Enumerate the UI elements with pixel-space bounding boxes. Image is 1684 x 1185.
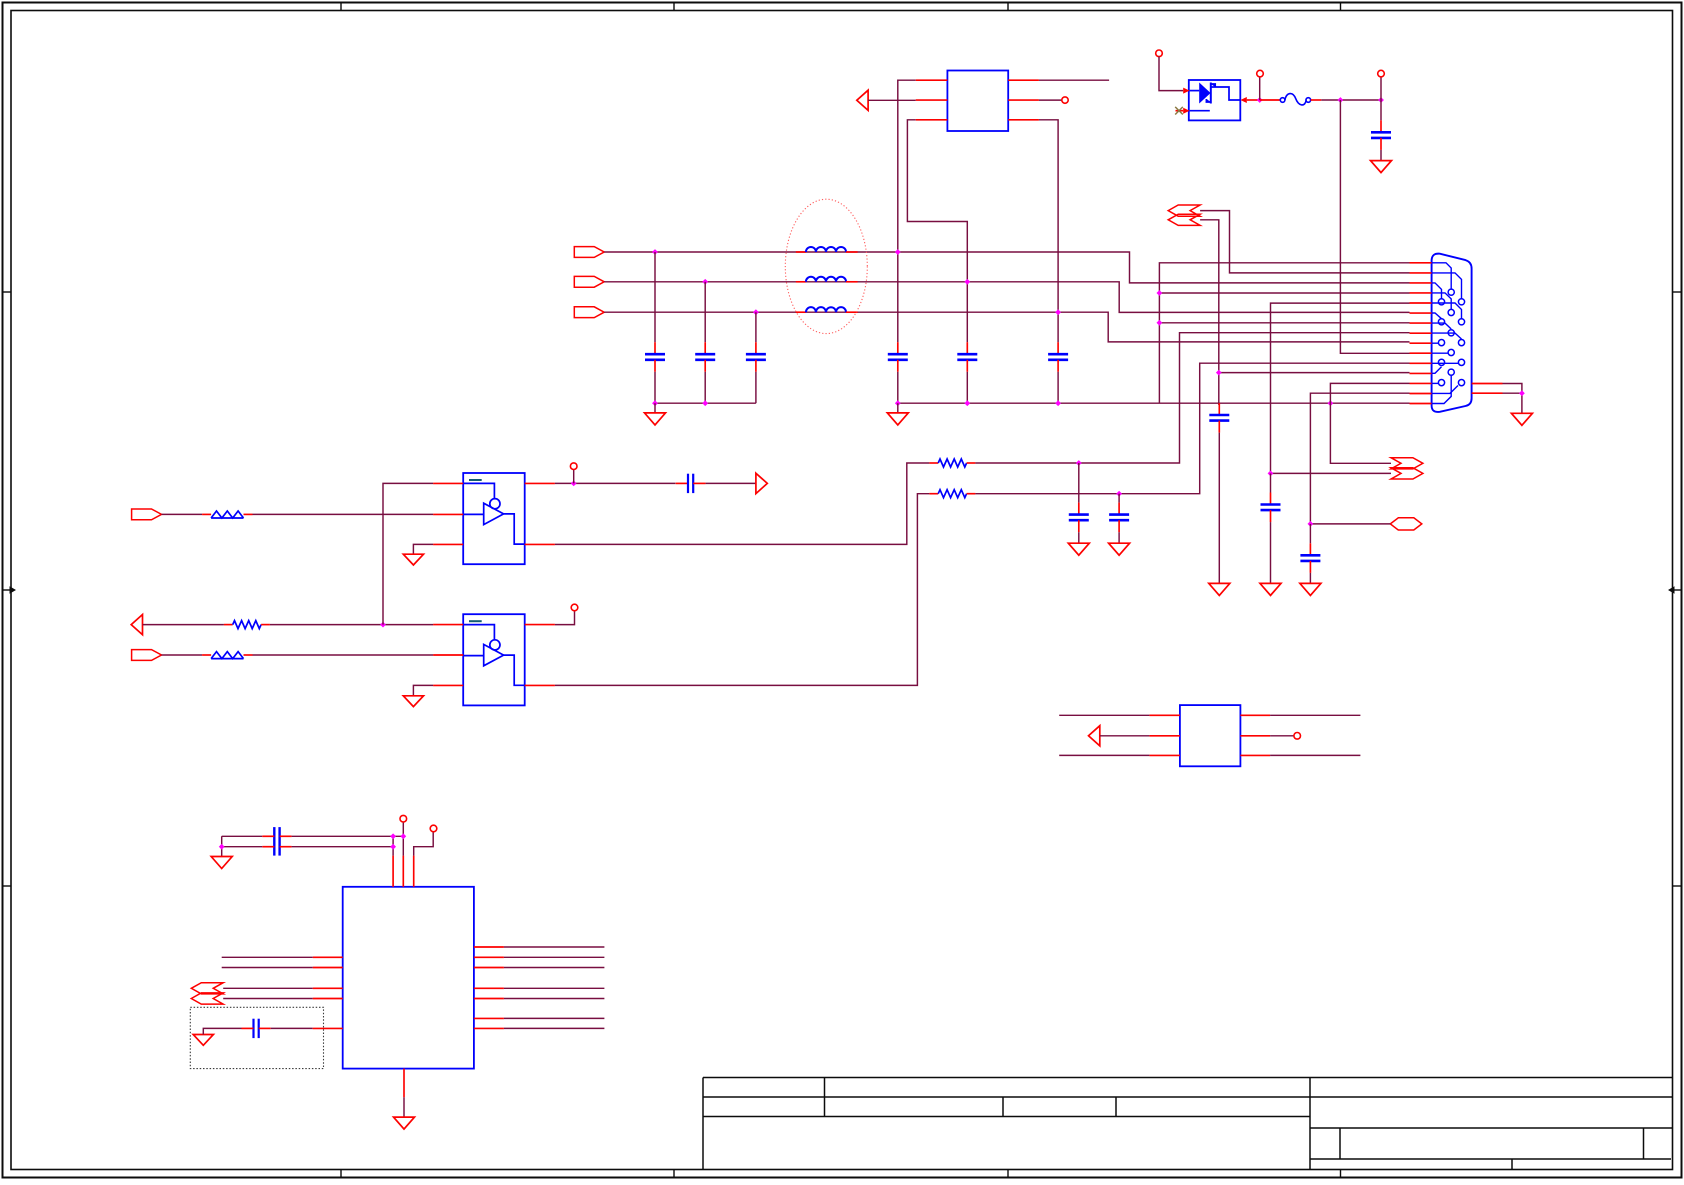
- ground below C12: [1109, 543, 1130, 555]
- wire R2 to DB pin11: [975, 363, 1409, 494]
- wire pin riser a: [392, 836, 394, 855]
- wire enable riser to U1: [383, 483, 433, 624]
- wire U3 top-right: [1270, 714, 1360, 716]
- wire C11 to ground: [1078, 532, 1080, 543]
- ground below C9: [1209, 583, 1230, 595]
- wire C10 to port: [706, 482, 756, 484]
- junction on D1 output: [1257, 97, 1263, 103]
- wire U3 mid-right to circle: [1270, 735, 1294, 737]
- pin circle U3: [1294, 733, 1301, 740]
- capacitor C2: [695, 342, 715, 372]
- border centre arrow left: [3, 586, 16, 593]
- junction bus-C4: [895, 400, 901, 406]
- junction gnd riser pin4: [1157, 290, 1163, 296]
- wire rail2 left: [222, 846, 263, 848]
- junction row3-C3: [753, 309, 759, 315]
- port arrow P1: [857, 90, 868, 110]
- wire C9 to ground: [1218, 433, 1220, 584]
- ic U4 body: [343, 887, 474, 1069]
- ground mid cap group: [887, 413, 908, 425]
- capacitor C1: [645, 342, 665, 372]
- pin circle on D1 output: [1257, 70, 1264, 77]
- wire U4 left row1: [222, 956, 313, 958]
- wire rail2 to pin: [292, 846, 394, 848]
- junction U1 output circle: [571, 481, 577, 487]
- junction bus-C2: [702, 400, 708, 406]
- DB15 right side pins: [1472, 384, 1503, 394]
- diode block D1 body: [1189, 80, 1241, 120]
- ground below C14: [1300, 583, 1321, 595]
- capacitor C15 body: [262, 827, 291, 856]
- port arrow P3 right: [756, 473, 767, 493]
- wire U1 top output: [555, 482, 676, 484]
- no-connect circle on T1 pin5: [1062, 97, 1068, 103]
- junction gnd riser pin7: [1157, 320, 1163, 326]
- wire C4 to bus: [897, 372, 899, 403]
- pin circle U4 c: [430, 825, 437, 832]
- capacitor C8: [1371, 120, 1391, 150]
- wire to +5V circle: [1380, 77, 1382, 100]
- resistor R6: [202, 652, 252, 659]
- wire U1 output to R1: [555, 463, 930, 544]
- wire ground bus left group: [655, 402, 756, 404]
- junction DB shield: [1519, 390, 1525, 396]
- capacitor C14: [1300, 543, 1320, 573]
- wire +5V node to C8: [1380, 100, 1382, 120]
- connector J4: [132, 509, 162, 520]
- wire VCC rail to pins: [292, 835, 404, 837]
- pin circle U2: [571, 604, 578, 611]
- wire +5V to DB pin10: [1340, 100, 1409, 353]
- filter block U3 body: [1180, 705, 1241, 766]
- wire circle riser U1: [573, 469, 575, 483]
- wire chevrons to U4 b: [223, 998, 313, 1000]
- junction bus-C5: [964, 400, 970, 406]
- capacitor C6: [1048, 342, 1068, 372]
- junction bus-pin13 net: [1328, 400, 1334, 406]
- ground left cap group: [645, 413, 666, 425]
- wire pin14 node to hex: [1310, 523, 1390, 525]
- wire C2 lead: [704, 282, 706, 342]
- ground rails: [211, 857, 232, 869]
- ground U4: [394, 1117, 415, 1129]
- junction a2: [390, 844, 396, 850]
- wire T1 pin6 stub right: [1039, 79, 1109, 81]
- junction row2-T1: [964, 279, 970, 285]
- wire VIN to D1: [1159, 57, 1183, 91]
- wire DB pin4 tap: [1159, 292, 1409, 294]
- pin circle U4 b: [400, 815, 407, 822]
- wire chevrons to U4 a: [223, 987, 313, 989]
- capacitor C5: [957, 342, 977, 372]
- capacitor C10: [676, 474, 706, 493]
- wire D1 output to circle: [1259, 77, 1261, 100]
- wire C16 to U4: [271, 1027, 313, 1029]
- wire DB pin5 net: [1271, 303, 1410, 473]
- wire C6 to bus: [1057, 372, 1059, 403]
- ground below C8: [1371, 161, 1392, 173]
- wire C5 to bus: [966, 372, 968, 403]
- wire pin riser c: [414, 832, 434, 856]
- title block table: [703, 1078, 1673, 1170]
- transformer T1 pins: [916, 80, 1039, 120]
- filter block U3 pins: [1149, 715, 1270, 755]
- inductor L2: [796, 277, 858, 282]
- wire T1 pin3 to net row2: [907, 120, 967, 342]
- wire P2 to R5: [143, 624, 224, 626]
- capacitor C11: [1069, 503, 1089, 533]
- wire rail left stem: [221, 836, 223, 856]
- power pin circle VIN: [1156, 50, 1163, 57]
- connector J3 row3: [574, 307, 604, 318]
- junction at x1381: [1378, 97, 1384, 103]
- DB15 connector J6 body: [1432, 254, 1472, 412]
- ic U4 right pins: [474, 947, 504, 1028]
- wire C3 to bus: [755, 372, 757, 403]
- wire J4 to R4: [162, 513, 203, 515]
- wire VCC rail top: [222, 835, 263, 837]
- wire U3 bottom-right: [1270, 754, 1360, 756]
- wire DB pin13 net: [1330, 383, 1409, 463]
- wire C3 lead: [755, 312, 757, 342]
- port arrow P2: [131, 615, 142, 635]
- ground U1 left pin: [413, 544, 433, 554]
- junction pin5 node: [1268, 471, 1274, 477]
- junction row1-T1: [895, 249, 901, 255]
- junction b1: [400, 833, 406, 839]
- wire C11 lead: [1078, 463, 1080, 503]
- wire R6 to U2 input: [253, 654, 434, 656]
- wire net row1: [604, 252, 1409, 283]
- filter group ellipse: [785, 199, 867, 333]
- pin circle +5V: [1378, 70, 1385, 77]
- junction row2-C2: [702, 279, 708, 285]
- wire net row2: [604, 282, 1409, 313]
- inductor L1: [796, 247, 858, 252]
- wire DB pin14 net: [1310, 393, 1409, 524]
- junction pin12: [1216, 370, 1222, 376]
- buffer U2 body: [463, 614, 525, 705]
- ground below C11: [1068, 543, 1089, 555]
- ic U4 top pins: [393, 856, 414, 887]
- wire xtal ground to C16: [203, 1028, 241, 1034]
- junction R1-C11: [1076, 460, 1082, 466]
- wire U4 to ground: [403, 1097, 405, 1117]
- wire C8 to ground: [1380, 150, 1382, 161]
- ground xtal: [193, 1035, 213, 1046]
- wire ground stem left group: [654, 403, 656, 413]
- sheet connector chevrons right: [1391, 458, 1423, 479]
- resistor R1: [929, 459, 975, 467]
- buffer U1 body: [463, 473, 525, 564]
- wire R1 to DB pin8: [975, 333, 1409, 463]
- junction bus-C6: [1055, 400, 1061, 406]
- wire ground stem mid group: [897, 403, 899, 413]
- ground symbol U2: [403, 696, 423, 707]
- DB15 pin stubs: [1410, 263, 1432, 404]
- ground DB shield: [1511, 413, 1532, 425]
- wire C1 to bus: [654, 372, 656, 403]
- wire C14 lead: [1309, 524, 1311, 543]
- wire R5 to U2: [270, 624, 433, 626]
- capacitor C13: [1261, 493, 1281, 523]
- wire P1 to T1 pin2: [868, 99, 916, 101]
- capacitor C9: [1209, 403, 1229, 433]
- pin circle U1: [570, 463, 577, 470]
- capacitor C12: [1109, 503, 1129, 533]
- wire T1 pin5 to NC circle: [1039, 99, 1062, 101]
- junction pin14 node: [1308, 521, 1314, 527]
- junction rail left: [219, 844, 225, 850]
- wire U2 output to R2: [555, 494, 930, 686]
- DB15 pads: [1438, 289, 1464, 386]
- border centre arrow right: [1668, 586, 1681, 593]
- capacitor C3: [746, 342, 766, 372]
- wire C1 lead: [654, 252, 656, 342]
- wire C12 lead: [1118, 494, 1120, 503]
- wire R4 to U1 input: [253, 513, 434, 515]
- resistor R2: [929, 490, 975, 498]
- wire U4 left row2: [222, 967, 313, 969]
- wire U3 bottom-left: [1059, 754, 1149, 756]
- wire chevron1 to DB pin2: [1200, 211, 1409, 273]
- resistor R5: [224, 621, 270, 629]
- wire C13 to ground: [1270, 522, 1272, 583]
- buffer U2 pins: [433, 625, 555, 686]
- capacitor C16: [242, 1019, 271, 1038]
- wires U4 right rows: [504, 947, 605, 1028]
- wire C2 to bus: [704, 372, 706, 403]
- wire C13 lead: [1270, 473, 1272, 492]
- ic U4 left pins: [313, 957, 343, 998]
- dotted highlight box: [190, 1007, 323, 1068]
- wire chevron2 down to C9: [1200, 220, 1219, 405]
- junction enable node: [380, 622, 386, 628]
- wire pin5 node to chevron: [1271, 472, 1392, 474]
- ic U4 xtal pin: [313, 1027, 343, 1029]
- wire U3 top-left: [1059, 714, 1149, 716]
- wire net row3: [604, 312, 1409, 342]
- no-ERC cross on D1 pin: [1175, 107, 1183, 115]
- ic U4 bottom pin: [403, 1069, 405, 1098]
- junction row3-T1: [1055, 309, 1061, 315]
- transformer T1 body: [947, 71, 1008, 132]
- connector J5: [132, 650, 162, 661]
- diode block D1 pin arrows: [1176, 88, 1260, 114]
- connector J1 row1: [574, 247, 604, 258]
- fuse F1: [1260, 94, 1322, 105]
- port arrow P4: [1089, 726, 1100, 746]
- junction at x1340: [1338, 97, 1344, 103]
- wire ground bus / pin15 net: [898, 402, 1410, 404]
- wire C12 to ground: [1118, 532, 1120, 543]
- wire T1 pin4 to net row3: [1039, 120, 1058, 342]
- wire P4 to U3: [1100, 735, 1150, 737]
- diode D1 internal symbol: [1190, 83, 1241, 111]
- wire U2 top output to circle: [555, 611, 575, 625]
- resistor R4: [202, 511, 252, 518]
- junction R2-C12: [1116, 491, 1122, 497]
- wire pin riser b: [402, 822, 404, 856]
- wire C14 to ground: [1309, 573, 1311, 584]
- inductor L3: [796, 307, 858, 312]
- wire gnd riser to DB pin1: [1159, 263, 1409, 403]
- junction row1-C1: [652, 249, 658, 255]
- ground symbol U1: [403, 554, 423, 565]
- ground U2 left pin: [413, 685, 433, 695]
- wire DB pin12 row: [1219, 372, 1410, 374]
- wire J5 to R6: [162, 654, 203, 656]
- DB15 internal traces: [1432, 263, 1462, 404]
- wire DB pin7 tap: [1159, 322, 1409, 324]
- wire T1 pin1 to net row1: [898, 80, 916, 342]
- capacitor C4: [888, 342, 908, 372]
- sheet connector hex right: [1390, 518, 1422, 530]
- connector J2 row2: [574, 276, 604, 287]
- buffer U1 pins: [433, 483, 555, 544]
- wire DB shield to ground: [1503, 384, 1522, 414]
- sheet connector chevrons U4: [191, 983, 223, 1004]
- junction bus-C1: [652, 400, 658, 406]
- junction a1: [390, 833, 396, 839]
- wire F1 to +5V node: [1321, 99, 1381, 101]
- sheet connector chevrons top: [1168, 205, 1200, 225]
- ground below C13: [1260, 583, 1281, 595]
